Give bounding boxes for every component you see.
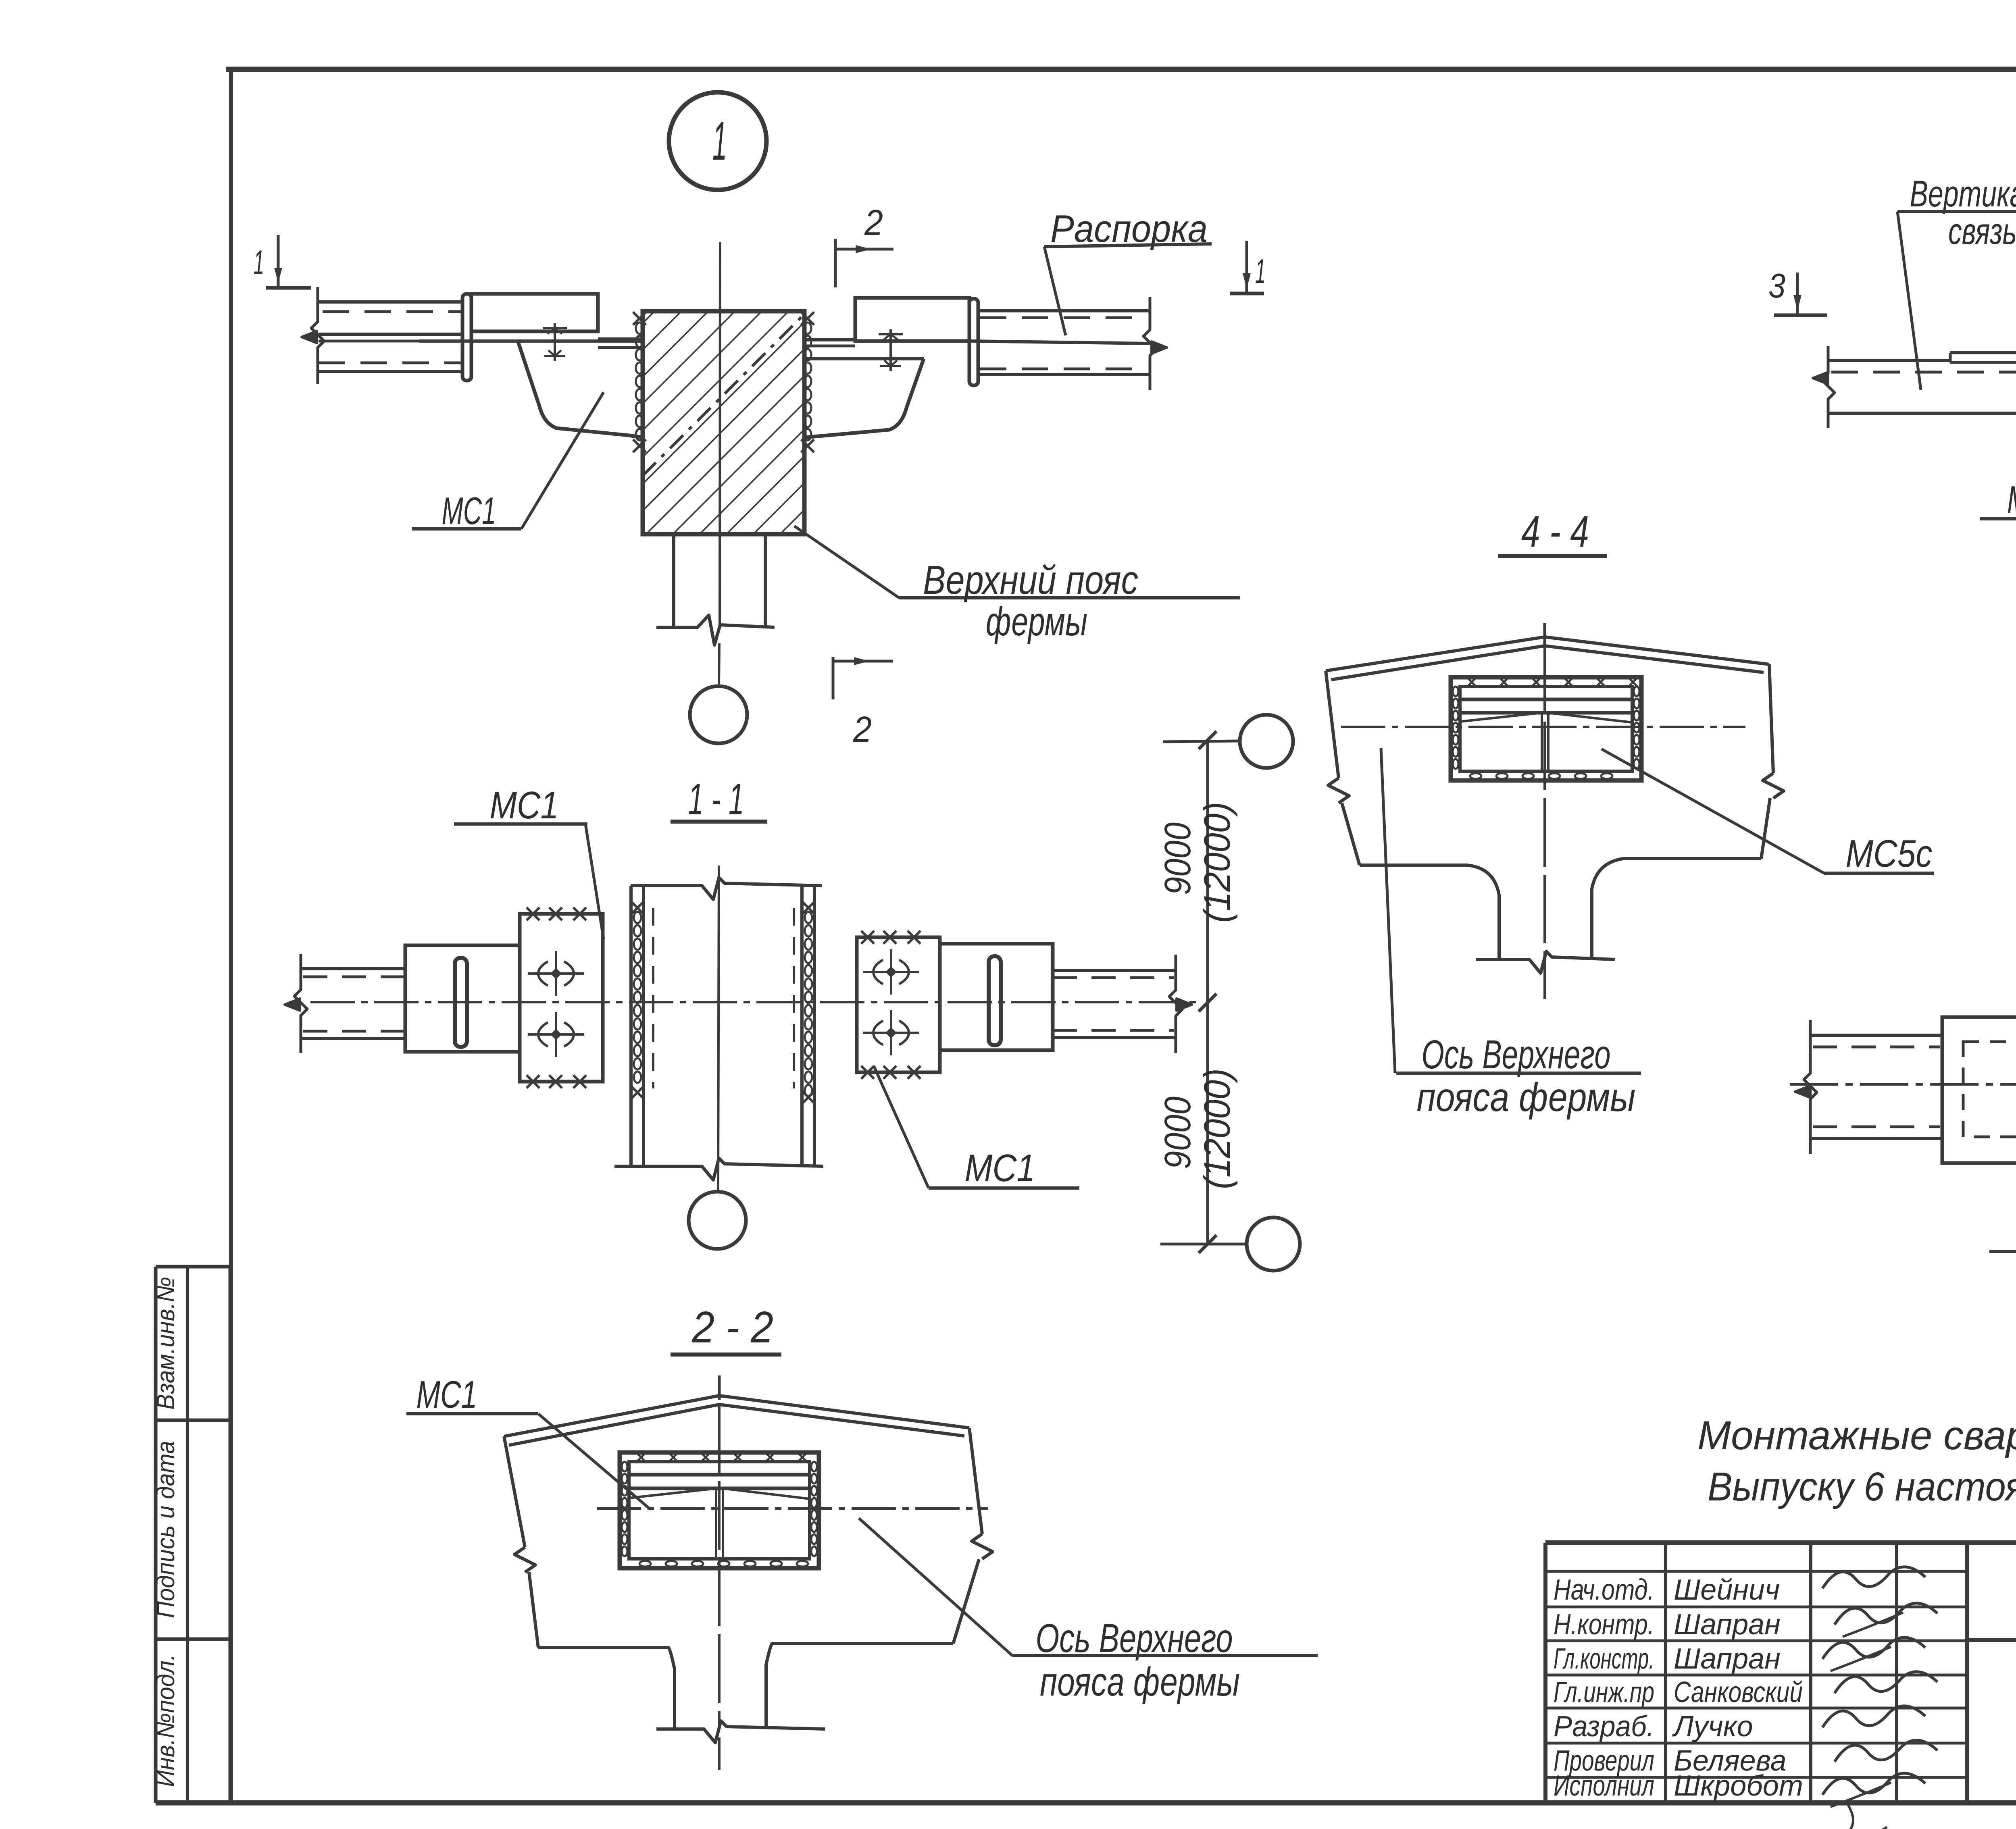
label Распорка (1044, 207, 1212, 335)
dim text 9000 (12000) upper left (1157, 802, 1238, 923)
grid circle top left dim (1240, 715, 1293, 768)
section 4-4 web outline right (1592, 664, 1784, 959)
section 1-1 right splice plate (857, 931, 940, 1079)
svg-text:Лучко: Лучко (1672, 1710, 1753, 1743)
svg-text:9000: 9000 (1157, 822, 1198, 895)
svg-text:фермы: фермы (986, 599, 1087, 644)
section 1-1 centerline (718, 866, 719, 1192)
node 2 section marker 3 left (1768, 267, 1827, 315)
svg-text:1: 1 (1255, 252, 1266, 291)
section 2-2 chord box (620, 1452, 819, 1568)
svg-text:(12000): (12000) (1197, 1068, 1238, 1189)
node 1 left bolt (554, 323, 556, 361)
section 2-2 web break (656, 1721, 825, 1743)
svg-text:2: 2 (853, 710, 872, 750)
node 1 section marker 2 top (835, 203, 893, 287)
section 2-2 label Ось Верхнего пояса фермы (859, 1518, 1318, 1704)
signature row Н.контр. Шапран (1554, 1608, 1781, 1641)
svg-text:связь: связь (1948, 211, 2016, 252)
section 1-1 left beam (285, 945, 520, 1053)
node 1 column centerline (720, 242, 720, 627)
section 4-4 web outline left (1326, 671, 1499, 959)
node 1 left gusset plate (518, 339, 643, 437)
node 1 right gusset plate (804, 359, 924, 437)
section 2-2 horizontal axis (597, 1507, 988, 1510)
node 1 label Верхний пояс фермы (794, 526, 1240, 644)
svg-text:Ось Верхнего: Ось Верхнего (1422, 1032, 1611, 1077)
svg-text:1: 1 (254, 243, 264, 282)
svg-text:МС1: МС1 (490, 784, 559, 827)
svg-text:МС5с: МС5с (2007, 478, 2016, 521)
section 1-1 right bolts (863, 971, 919, 973)
section 4-4 roof chord lines (1326, 623, 1769, 680)
svg-text:Шкробот: Шкробот (1674, 1770, 1803, 1802)
section title 2-2 (671, 1303, 781, 1355)
section 1-1 grid circle (689, 1192, 746, 1249)
section 2-2 centerline (718, 1405, 721, 1729)
svg-text:9000: 9000 (1157, 1097, 1198, 1169)
signature row Нач.отд. Шейнич (1554, 1574, 1780, 1606)
svg-text:Монтажные сварные швы прини: Монтажные сварные швы принимать по (1697, 1413, 2016, 1458)
svg-text:МС1: МС1 (417, 1373, 477, 1416)
node 1 column shaft below block (656, 534, 775, 686)
label Вертикальная связь (1897, 173, 2016, 390)
section 1-1 left weld seam (631, 901, 644, 1099)
svg-text:МС1: МС1 (442, 489, 496, 533)
node 1 left strut (beam) (302, 287, 643, 384)
svg-text:Вертикальная: Вертикальная (1910, 173, 2016, 214)
svg-text:2 - 2: 2 - 2 (691, 1303, 773, 1352)
section 4-4 web break (1476, 951, 1615, 973)
svg-text:(12000): (12000) (1197, 802, 1238, 923)
node 1 left cover plate (471, 294, 598, 331)
section 1-1 label MC1 bottom (874, 1066, 1079, 1190)
section 1-1 left splice plate (520, 907, 603, 1088)
section title 1-1 (671, 774, 767, 824)
svg-text:Инв.№подл.: Инв.№подл. (152, 1654, 180, 1787)
svg-text:3: 3 (1768, 267, 1785, 305)
svg-text:Шапран: Шапран (1674, 1608, 1781, 1641)
svg-text:пояса фермы: пояса фермы (1040, 1659, 1240, 1704)
svg-text:Взам.инв.№: Взам.инв.№ (152, 1277, 180, 1410)
section 1-1 left bolts (528, 972, 584, 975)
svg-text:1: 1 (712, 110, 727, 171)
node 1 label MC1 (412, 392, 604, 533)
section 1-1 column band (614, 878, 823, 1180)
title block main cells (1967, 1640, 2016, 1803)
section 1-1 right weld seam (802, 901, 815, 1104)
left margin stamp boxes (156, 1267, 230, 1803)
section 4-4 centerline (1543, 645, 1546, 999)
node 1 section marker 2 bottom (833, 657, 893, 750)
signature row Разраб. Лучко (1554, 1710, 1753, 1743)
section 3-3 beam (1795, 1020, 1942, 1154)
section 2-2 label MC1 (406, 1373, 650, 1509)
svg-text:Нач.отд.: Нач.отд. (1554, 1574, 1654, 1606)
node 1 right strut end plate (969, 299, 978, 385)
section 1-1 horizontal axis (310, 1001, 1202, 1003)
node 1 right bolt (889, 329, 892, 371)
section 2-2 web outline left (504, 1436, 675, 1729)
section 4-4 chord box (1451, 676, 1641, 780)
svg-text:4 - 4: 4 - 4 (1521, 507, 1589, 556)
svg-text:Н.контр.: Н.контр. (1554, 1608, 1654, 1641)
svg-text:Шейнич: Шейнич (1674, 1574, 1780, 1606)
node 1 right weld seam (801, 312, 814, 452)
signature row Гл.инж.пр Санковский (1554, 1676, 1803, 1708)
signature row Исполнил Шкробот (1554, 1770, 1803, 1802)
section 1-1 right beam (940, 944, 1192, 1053)
svg-text:2: 2 (864, 203, 883, 243)
svg-text:МС1: МС1 (965, 1147, 1035, 1190)
node 1 grid bubble (669, 92, 766, 190)
section 4-4 label Ось Верхнего пояса фермы (1381, 748, 1641, 1120)
title block outer lines (1545, 1543, 2016, 1803)
node 1 section marker 1 left (254, 235, 311, 288)
node 1 section marker 1 right (1230, 241, 1266, 293)
svg-text:Верхний пояс: Верхний пояс (923, 558, 1138, 603)
section 3-3 label МС5с (1989, 1147, 2016, 1251)
node 1 lower grid circle (690, 686, 747, 743)
svg-text:Подпись и дата: Подпись и дата (152, 1441, 180, 1618)
section 2-2 roof chord lines (504, 1375, 969, 1445)
signature row Проверил Беляева (1554, 1745, 1787, 1777)
node 1 left weld seam (633, 312, 646, 452)
svg-text:1 - 1: 1 - 1 (688, 774, 744, 824)
svg-text:Санковский: Санковский (1674, 1676, 1803, 1708)
svg-text:Выпуску 6 настоящей серии: Выпуску 6 настоящей серии (1708, 1464, 2016, 1509)
svg-text:Гл.инж.пр: Гл.инж.пр (1554, 1676, 1654, 1708)
svg-text:МС5с: МС5с (1846, 832, 1933, 875)
section 3-3 cover plate (1942, 1017, 2016, 1163)
node 1 left strut end plate (462, 294, 471, 381)
section 2-2 web outline right (766, 1428, 993, 1729)
section 1-1 label MC1 top (454, 784, 604, 939)
dim text 9000 (12000) lower left (1157, 1068, 1238, 1189)
signature row Гл.констр. Шапран (1554, 1643, 1781, 1675)
svg-text:Разраб.: Разраб. (1554, 1710, 1654, 1743)
grid dimension line left (1160, 731, 1247, 1253)
signatures scribbles (1822, 1567, 1937, 1829)
title block signature grid (1545, 1543, 1967, 1803)
node 1 hatched column block (643, 311, 804, 534)
section title 4-4 (1498, 507, 1607, 556)
node 2 bracing beam (1813, 346, 2016, 428)
grid circle bottom left dim (1247, 1217, 1300, 1271)
node 2 label МС5с (1980, 411, 2016, 521)
svg-text:пояса фермы: пояса фермы (1417, 1075, 1636, 1120)
section 4-4 horizontal axis (1341, 726, 1745, 728)
node 1 right strut (beam) (804, 297, 1167, 390)
section 3-3 horizontal axis (1790, 1083, 2016, 1086)
svg-text:Гл.констр.: Гл.констр. (1554, 1643, 1654, 1675)
svg-text:Исполнил: Исполнил (1554, 1770, 1654, 1802)
section 4-4 label МС5с (1602, 749, 1934, 875)
svg-text:Шапран: Шапран (1674, 1643, 1781, 1675)
